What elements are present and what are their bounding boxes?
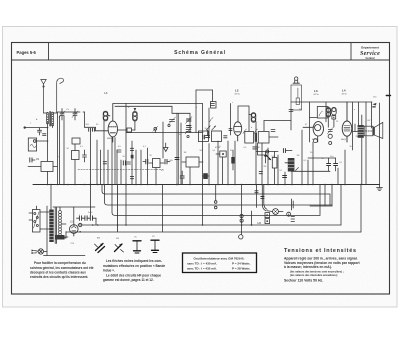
wire x136 [135, 150, 137, 185]
bus junction nodes [47, 184, 362, 186]
node coil/earth [47, 127, 49, 129]
svg-text:à la masse; intensités en mA).: à la masse; intensités en mA). [284, 265, 332, 269]
wire tube to right [118, 129, 128, 131]
capacitor C24 [93, 128, 95, 131]
switch S1 [95, 244, 105, 253]
resistor R9 [198, 131, 208, 142]
capacitor C28 [123, 161, 125, 165]
capacitor C9 [271, 130, 275, 132]
wire can lead [248, 114, 250, 131]
mech link dashed [78, 169, 163, 171]
capacitor C30 [283, 149, 292, 153]
trimmer CT3 [168, 117, 176, 127]
wire grid feed [83, 112, 108, 131]
output transformer TR2 [353, 124, 364, 138]
transformer core [55, 208, 56, 244]
svg-text:PO: PO [152, 236, 155, 238]
wire badge B3 [249, 114, 251, 116]
wire y90 stub [196, 89, 213, 91]
T1 core bars [255, 133, 257, 142]
voltage badge B5 [332, 107, 337, 115]
wire y171 [291, 170, 330, 172]
trimmer CT4 [185, 127, 192, 138]
svg-text:50k: 50k [170, 160, 173, 162]
current badge lamps [265, 213, 270, 224]
capacitor C32 [103, 162, 106, 164]
tube V3 [313, 122, 323, 142]
capacitor C10 [289, 110, 293, 112]
svg-text:(les valeurs des tensions sont: (les valeurs des tensions sont encerclée… [290, 269, 344, 273]
current badge R10 [216, 151, 226, 157]
capacitor C1 [38, 128, 42, 135]
osc step wire [115, 106, 190, 113]
svg-text:L4: L4 [342, 89, 346, 93]
resistor R6 [272, 152, 277, 185]
svg-text:472 kc: 472 kc [235, 94, 240, 96]
svg-text:schéma général, les commutateu: schéma général, les commutateurs ont été [30, 266, 94, 270]
wire x90.5 below bus [90, 185, 92, 217]
filter cap C20 [85, 216, 87, 221]
trimmer L3b [327, 127, 333, 134]
wire x264 [263, 121, 265, 132]
wire x341 [340, 185, 342, 226]
mains cord [37, 206, 86, 256]
svg-text:Département: Département [361, 46, 379, 50]
wire x291 [290, 110, 292, 130]
wire y158 tone [308, 157, 336, 159]
svg-text:472 kc: 472 kc [342, 94, 347, 96]
terminal circle right [287, 212, 291, 216]
switch labels [97, 236, 155, 240]
heater rail A [112, 185, 320, 216]
svg-text:(les valeurs des intensités en: (les valeurs des intensités encadrées) ; [290, 273, 338, 277]
detector arrow black [266, 155, 271, 160]
ground bus [33, 184, 380, 186]
trimmer arrow T1b [254, 129, 258, 134]
pickup input PU [28, 138, 48, 151]
svg-text:7k: 7k [356, 136, 358, 138]
svg-text:5n: 5n [322, 158, 324, 160]
HT+ line from rectifier [78, 224, 341, 226]
svg-text:Le débit des circuits HF pour: Le débit des circuits HF pour chaque [106, 274, 161, 278]
mains plug [32, 250, 39, 255]
label L2 [235, 89, 240, 96]
trimmer arrow T1a [243, 129, 247, 134]
long wire x126 down [125, 104, 127, 226]
voltage badge B1 [103, 111, 108, 121]
tube V2 [234, 122, 242, 141]
svg-text:L2: L2 [235, 89, 239, 93]
wire loop to coil [53, 112, 57, 114]
wire x332 [331, 185, 333, 207]
capacitor C3 [83, 150, 87, 162]
transformer secondary top lead [60, 207, 66, 238]
filter cap C19 [79, 214, 82, 221]
wire x51 primary to bus [50, 185, 52, 210]
capacitor C14 [143, 159, 148, 164]
wire x326 [325, 102, 327, 122]
capacitor C4 [117, 150, 121, 152]
svg-text:1M: 1M [184, 152, 187, 154]
capacitor C31 [259, 172, 262, 174]
connector pins [291, 199, 295, 222]
capacitor C22 [261, 197, 264, 199]
voltage badge B4 [326, 107, 331, 117]
resistor R8 [182, 157, 203, 167]
wire badge B5 down [333, 119, 335, 127]
wire x251.5 [251, 211, 253, 226]
wire top right corner [371, 102, 374, 128]
svg-text:1M: 1M [297, 155, 300, 157]
svg-text:1n: 1n [132, 158, 134, 160]
svg-text:10n: 10n [330, 156, 333, 158]
voltage selector [33, 210, 41, 233]
resistor R5 [296, 88, 299, 105]
mid long wire [126, 132, 203, 134]
coil L1 secondary [51, 112, 53, 126]
svg-text:avec TD : I = 435 mA.: avec TD : I = 435 mA. [187, 266, 217, 270]
svg-text:Les flèches noires indiquent l: Les flèches noires indiquent les com- [106, 259, 162, 263]
loop antenna [57, 78, 64, 113]
heater rail B [66, 231, 361, 233]
note: tensions et intensites block [284, 248, 361, 282]
node circle below V3 [313, 134, 332, 144]
trimmer arrows pair [206, 126, 216, 130]
antenna [41, 80, 46, 114]
speaker HP [364, 122, 383, 138]
capacitor C7 [206, 130, 210, 138]
schematic border frame [12, 43, 390, 295]
trimmer circle small [153, 126, 158, 132]
svg-text:1M: 1M [299, 109, 302, 111]
capacitor C27 [130, 148, 133, 150]
voltage badge B2 [133, 108, 138, 121]
label L3 [314, 89, 319, 96]
wire x212.5 [212, 90, 214, 102]
wire x190 [189, 113, 191, 132]
svg-text:Pour faciliter la compréhensio: Pour faciliter la compréhension du [34, 261, 86, 265]
top grid line left [113, 103, 203, 105]
capacitor C8 [224, 136, 227, 138]
tube V1 [108, 104, 117, 143]
detector diode D1 [264, 152, 267, 164]
resistor R1 [28, 162, 58, 185]
wire antenna to coil [44, 112, 48, 115]
note: left caption paragraph [30, 261, 94, 279]
wire y120 [264, 120, 291, 122]
wire corner x330 [329, 194, 331, 205]
wire x196 [195, 90, 197, 133]
wire V1 cathode [114, 138, 116, 185]
voltage badge B3 [251, 113, 256, 123]
svg-text:endroits des circuits qu’ils i: endroits des circuits qu’ils intéressent… [30, 275, 88, 279]
transformer top plate wire [53, 206, 95, 208]
svg-text:P = 24 Watts.: P = 24 Watts. [232, 261, 251, 265]
padder box [211, 102, 217, 109]
capacitor C29 [130, 177, 133, 179]
wire filter caps [77, 218, 97, 225]
svg-text:2n: 2n [179, 134, 181, 136]
svg-text:Pages 5-6: Pages 5-6 [17, 50, 37, 55]
svg-text:Schéma Général: Schéma Général [174, 50, 226, 56]
selector leads [29, 212, 49, 229]
coil L1 core [49, 112, 51, 127]
oscillator can outline [238, 106, 249, 122]
value labels [30, 94, 371, 245]
wire coil sec down [52, 125, 54, 128]
transistor-style arrow [164, 143, 169, 152]
IF transformer T1 primary box [245, 132, 254, 144]
IF can L3 [310, 107, 329, 119]
wire x358.5 [358, 102, 360, 127]
svg-text:50k: 50k [200, 150, 203, 152]
wire x132 [131, 141, 133, 185]
wire x117.5 below bus [117, 185, 119, 232]
svg-text:50k: 50k [272, 156, 275, 158]
power transformer primary [49, 210, 53, 243]
choke L5 [55, 235, 68, 240]
earth terminal [24, 126, 48, 128]
resistor R7 [149, 159, 164, 168]
current box badge [332, 116, 336, 119]
switch S3 [133, 241, 141, 253]
wire x241.6 to lamp panel [241, 185, 243, 235]
switch S2 [115, 244, 124, 252]
capacitor C18 [231, 150, 234, 170]
svg-text:g: g [59, 156, 60, 158]
wire x256.5 [256, 185, 258, 208]
IF transformer T1 secondary box [258, 132, 269, 144]
svg-text:P = 28 Watts.: P = 28 Watts. [232, 266, 251, 270]
wire x309.5 [309, 102, 311, 142]
rail junction dots [73, 215, 268, 233]
trimmer cluster osc [186, 117, 193, 128]
capacitor C5 [127, 162, 131, 164]
svg-text:2M: 2M [36, 159, 39, 161]
terminal circle HT [79, 223, 82, 226]
wire det branch [258, 143, 268, 155]
capacitor C11 [283, 176, 287, 178]
wire x325 bus to rail [324, 185, 326, 207]
screw circles TD [214, 185, 217, 209]
wire x320 below bus [319, 185, 321, 216]
frame terminal tick [386, 95, 390, 97]
capacitor C15 [165, 159, 170, 164]
trimmer CT2 [72, 109, 78, 121]
rectifier tube V5 [70, 225, 79, 236]
svg-text:2M: 2M [264, 166, 267, 168]
svg-text:mutations effectuées en positi: mutations effectuées en position « Bande [103, 264, 165, 268]
capacitor C16 [175, 158, 179, 160]
wire y127 stub [303, 126, 313, 128]
trimmer det [253, 147, 257, 149]
detector node circle [266, 150, 269, 153]
trimmer arrows mid [210, 118, 214, 123]
coil L1 primary [46, 112, 48, 124]
svg-text:Central: Central [366, 56, 375, 60]
resistor R4 [127, 128, 135, 132]
tube V4 [342, 102, 352, 142]
vertical wires to ground bus [59, 116, 61, 185]
wire coil down [47, 123, 49, 162]
volume potentiometer P1 [285, 158, 299, 172]
svg-text:Oscillomodulateur avec GM 7: Oscillomodulateur avec GM 7629 B: [193, 256, 244, 260]
capacitor C13 [334, 158, 338, 171]
svg-text:Appareil réglé sur 200 m., arr: Appareil réglé sur 200 m., arrivée, sans… [284, 257, 358, 261]
resistor R11 [131, 155, 134, 158]
osc coil box [212, 131, 222, 142]
svg-text:gamme est donné, pages 11 et 1: gamme est donné, pages 11 et 12. [103, 278, 154, 282]
capacitor C21 [255, 191, 258, 193]
wire y206 stub [310, 205, 332, 207]
svg-text:472 kc: 472 kc [314, 94, 319, 96]
svg-text:Tensions et Intensités: Tensions et Intensités [284, 248, 357, 254]
wire x352.5 [352, 102, 354, 150]
capacitor bars left [203, 135, 205, 139]
capacitor C17 [180, 171, 184, 185]
mains fuse lamp [38, 249, 43, 254]
svg-text:découpés et les contacts class: découpés et les contacts classés aux [30, 270, 86, 274]
svg-text:L3: L3 [314, 89, 318, 93]
chassis ground right end [377, 185, 383, 191]
svg-text:Indue ».: Indue ». [103, 268, 115, 272]
resistor R2 [72, 144, 80, 160]
svg-text:AM: AM [97, 237, 100, 240]
wire T1 out [269, 136, 278, 138]
resistor R3 box upper [72, 138, 80, 144]
screw terminal T2 [240, 214, 243, 222]
pickup jack PU2 [293, 77, 300, 83]
wire x361 [360, 185, 362, 233]
trimmer CT1 [59, 109, 65, 121]
dial lamp E1 [262, 185, 283, 215]
wire x162.5 below bus [162, 185, 164, 232]
pickup box [291, 85, 302, 110]
note: middle caption paragraphs [103, 259, 165, 282]
svg-text:Secteur 110 Volts 50 Hz.: Secteur 110 Volts 50 Hz. [284, 278, 323, 282]
HT rail [102, 185, 330, 195]
note: consumption box [183, 253, 257, 273]
switch S4 [151, 240, 159, 252]
svg-text:d: d [251, 127, 252, 129]
wire badge B4 down [327, 117, 329, 127]
svg-text:c: c [232, 102, 233, 104]
wire x230.5 [229, 104, 232, 136]
capacitor C12 [327, 158, 331, 171]
trimmer CT5 [211, 104, 215, 106]
capacitor C2 [43, 134, 47, 136]
svg-text:6AQ5: 6AQ5 [341, 138, 347, 141]
wire g line [57, 112, 59, 185]
connector flag [372, 103, 376, 108]
wire rectifier top [73, 207, 75, 225]
wire badge B2 down [134, 121, 136, 130]
svg-text:CV: CV [66, 109, 70, 111]
wire detector row [256, 151, 278, 153]
capacitor C23 [89, 128, 91, 131]
screw terminal T3 [239, 235, 243, 239]
svg-text:FM: FM [116, 238, 119, 240]
top line right section [291, 101, 372, 103]
filter cap C20b [90, 214, 93, 221]
screen rail [105, 185, 333, 206]
capacitor C33 [30, 158, 35, 162]
wire badge to tube [108, 115, 110, 116]
svg-text:L6: L6 [258, 221, 262, 225]
wire trimmer row [58, 111, 81, 113]
trimmer arrow L3 [319, 111, 323, 116]
long wire x202.5 down [202, 104, 204, 226]
electrolytic C25 [203, 173, 210, 179]
heater tap [62, 223, 66, 225]
svg-text:sans TD : I = 430 mA.: sans TD : I = 430 mA. [187, 261, 217, 265]
transformer secondary [59, 211, 62, 237]
label L4 [342, 89, 347, 96]
